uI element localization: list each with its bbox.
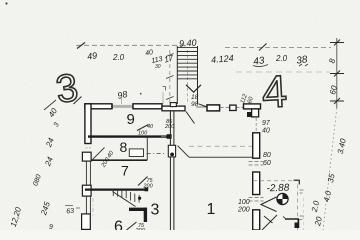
left wall pilaster 2 bbox=[82, 185, 91, 196]
speck near 98 bbox=[140, 93, 142, 95]
wall between room 8 and 7 bbox=[91, 159, 147, 161]
door swing diagonal (stair door) bbox=[186, 112, 195, 124]
level mark circle bbox=[277, 193, 288, 204]
level mark NE quadrant bbox=[283, 193, 289, 199]
dash above 63 bbox=[65, 206, 80, 209]
bottom-right corner wall line bbox=[285, 218, 299, 220]
boundary corner mark bbox=[294, 180, 300, 184]
lower stair diagonal bbox=[113, 192, 136, 207]
fixture rectangle in room 8 bbox=[129, 149, 143, 157]
open door line to room 1 bbox=[189, 156, 253, 158]
opening line right of pier bbox=[220, 107, 230, 109]
svg-text:9: 9 bbox=[49, 224, 53, 230]
small pier bbox=[230, 105, 236, 110]
door slash room 6 bbox=[127, 222, 137, 230]
svg-text:98: 98 bbox=[116, 89, 128, 101]
right dim dotted continuation bbox=[323, 108, 337, 230]
axis dashes above pier1 bbox=[255, 118, 257, 133]
stair direction V arrow bbox=[186, 85, 201, 92]
stair side dim ticks bbox=[166, 54, 174, 100]
window jamb lines bbox=[113, 104, 133, 109]
tiny corner mark above stair bbox=[163, 87, 166, 91]
svg-text:3: 3 bbox=[151, 202, 160, 219]
svg-text:1: 1 bbox=[207, 201, 216, 218]
stair threshold bar bbox=[162, 106, 185, 111]
faint dash-dot axis in room 6 bbox=[92, 198, 94, 218]
gap2 tick dashes bbox=[249, 198, 264, 202]
svg-text:97: 97 bbox=[262, 120, 271, 127]
corner blob bbox=[295, 223, 300, 229]
left wall double line seg 1 bbox=[86, 161, 90, 185]
svg-text:40: 40 bbox=[262, 128, 270, 135]
corner vertical bbox=[298, 219, 300, 228]
left wall double line seg 2 bbox=[86, 196, 90, 214]
corner tick bbox=[283, 217, 287, 220]
svg-text:30: 30 bbox=[155, 64, 161, 70]
svg-text:4: 4 bbox=[261, 65, 289, 117]
svg-text:40: 40 bbox=[147, 124, 154, 130]
svg-text:18: 18 bbox=[191, 94, 199, 101]
svg-text:7: 7 bbox=[121, 163, 129, 179]
corner piece top bar bbox=[244, 104, 261, 109]
thin wall line to pier bbox=[196, 106, 207, 108]
left wall pilaster 3 bbox=[82, 214, 91, 230]
dimension line top-right (dashed) bbox=[225, 47, 331, 49]
faint second vertical dashed bbox=[303, 198, 305, 230]
corner piece vertical bbox=[252, 109, 259, 117]
lower swing diagonals bbox=[262, 215, 277, 230]
wall between room 7 and 6 bbox=[85, 189, 146, 191]
L wall vertical bar bbox=[144, 208, 147, 222]
right dim vertical line bbox=[336, 38, 338, 108]
room8 door dash in left wall bbox=[86, 147, 92, 149]
tick slash on top-right dim line bbox=[259, 44, 267, 51]
wall end blob bbox=[145, 188, 149, 192]
svg-text:9: 9 bbox=[127, 111, 135, 128]
dash-dot from fixture to corridor wall bbox=[147, 153, 165, 155]
svg-text:100: 100 bbox=[138, 131, 148, 137]
right wing pier 2 bbox=[253, 172, 260, 195]
window jamb tick above wall bbox=[121, 97, 123, 105]
faint second dim line right bbox=[236, 71, 330, 73]
left wall upper (room 9) bbox=[85, 104, 91, 144]
tick under 38 bbox=[299, 64, 308, 66]
svg-text:2.0: 2.0 bbox=[112, 53, 125, 62]
stair side dim dashed line bbox=[169, 50, 171, 106]
threshold tab bbox=[170, 103, 176, 107]
top wall bar 2 bbox=[133, 104, 162, 109]
corner black blob bbox=[247, 112, 251, 117]
speck top-left bbox=[5, 2, 7, 4]
wall between room 9 and 8 bbox=[88, 135, 167, 137]
svg-text:6: 6 bbox=[114, 219, 123, 231]
L wall horizontal bar bbox=[129, 208, 147, 211]
svg-text:80: 80 bbox=[263, 152, 271, 159]
room8 door leaf diagonal bbox=[93, 148, 105, 160]
underline curve of 43 bbox=[253, 65, 268, 67]
svg-text:9.40: 9.40 bbox=[179, 37, 197, 48]
leader arrow lines bbox=[261, 197, 277, 212]
corridor door diagonal bbox=[178, 146, 189, 158]
svg-text:100: 100 bbox=[238, 199, 250, 206]
dashed line room 1 bbox=[189, 145, 253, 147]
gap1 tick dashes bbox=[249, 162, 264, 166]
lower stair treads bbox=[113, 191, 139, 203]
top wall bar 1 (double-line) bbox=[85, 104, 112, 109]
left wall pilaster 1 bbox=[82, 152, 91, 161]
room 1 dashed boundary horizontal bbox=[253, 180, 299, 182]
svg-text:-2.88: -2.88 bbox=[266, 183, 290, 195]
connector diagonal to pier bbox=[199, 104, 208, 107]
left dim slash top bbox=[74, 97, 82, 105]
stair center dashed axis bbox=[187, 50, 189, 104]
right wing pier 1 bbox=[253, 133, 260, 158]
tick above wall right bbox=[162, 92, 164, 104]
corridor pilaster bbox=[168, 145, 175, 157]
corridor door knob dot bbox=[170, 153, 174, 157]
stair left rail bbox=[176, 46, 178, 104]
svg-text:63: 63 bbox=[66, 208, 75, 216]
room 8 right wall bbox=[146, 138, 148, 160]
svg-text:200: 200 bbox=[237, 207, 250, 214]
cross tick 3 bbox=[330, 98, 344, 104]
svg-text:49: 49 bbox=[86, 50, 97, 61]
level mark SW quadrant bbox=[277, 199, 283, 205]
cross tick 1 bbox=[330, 40, 344, 46]
small marks near 300 bbox=[300, 190, 304, 193]
stair dot bbox=[138, 197, 141, 200]
tick left of corridor wall bbox=[161, 135, 166, 137]
room 1 dashed boundary vertical bbox=[297, 185, 299, 231]
corridor wall double lines bbox=[170, 112, 174, 231]
wall pier top (outlined) bbox=[207, 105, 220, 111]
svg-text:40: 40 bbox=[145, 49, 154, 57]
axis dash to corner bbox=[236, 107, 243, 109]
small marks at 300 lower bbox=[300, 216, 304, 220]
svg-text:8: 8 bbox=[120, 139, 128, 155]
stair treads bbox=[177, 48, 197, 79]
window opening glazing band bbox=[113, 105, 133, 108]
window note slash (room 9) bbox=[137, 125, 149, 131]
svg-text:2.0: 2.0 bbox=[275, 54, 288, 63]
left slash through 40 bbox=[44, 100, 56, 110]
door slash room 7 bbox=[138, 177, 148, 186]
cross tick 2 bbox=[330, 71, 344, 77]
svg-text:4.124: 4.124 bbox=[211, 53, 234, 65]
junction blob at corridor bbox=[167, 134, 172, 139]
tick slash on top-left dim line bbox=[77, 43, 85, 49]
svg-text:200: 200 bbox=[135, 228, 146, 230]
dimension line top-left (dashed) bbox=[76, 44, 185, 46]
right wing pier 3 bbox=[253, 210, 260, 230]
stair right rail bbox=[197, 46, 199, 104]
svg-text:60: 60 bbox=[263, 160, 271, 167]
